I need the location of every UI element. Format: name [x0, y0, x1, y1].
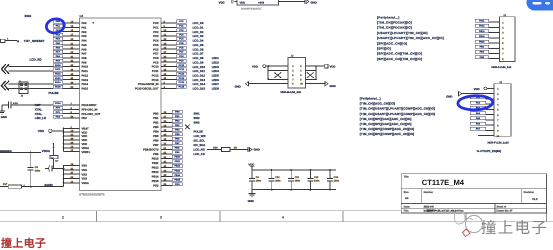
svg-text:PC15-OSC32_OUT: PC15-OSC32_OUT	[135, 88, 159, 91]
svg-text:8: 8	[497, 124, 499, 127]
svg-text:AGND: AGND	[44, 183, 53, 187]
svg-text:3R: 3R	[234, 146, 237, 149]
svg-text:5: 5	[502, 42, 504, 45]
power pin VREF+ wire, pin 12	[64, 149, 91, 154]
wire and net label PA9, pin 42	[53, 59, 87, 64]
svg-text:LCD_D0: LCD_D0	[193, 21, 204, 25]
svg-text:+3V3: +3V3	[258, 2, 265, 5]
svg-text:SW4: SW4	[25, 14, 32, 18]
svg-text:Date:: Date:	[404, 205, 410, 208]
svg-text:100n: 100n	[256, 179, 262, 182]
ground symbol GND below capacitor bank	[248, 190, 256, 203]
svg-text:[TIM_CH][USART][LPUART][COMP][: [TIM_CH][USART][LPUART][COMP][ADC_CH][IO…	[360, 107, 435, 111]
svg-text:[TIM_CH][SPI][COMP][ADC_CH][IO: [TIM_CH][SPI][COMP][ADC_CH][IO]	[360, 127, 414, 131]
svg-text:to CT117E_EX(Bd): to CT117E_EX(Bd)	[477, 149, 501, 153]
resistor R17 AGND line	[0, 183, 64, 189]
svg-text:LCD_D15: LCD_D15	[193, 87, 206, 91]
wire and net label PULSE on pin PB4	[153, 128, 203, 133]
svg-text:VSSA: VSSA	[82, 182, 89, 185]
svg-text:D:\蓝桥杯\PCB\..\CT117_M4.SchDoc: D:\蓝桥杯\PCB\..\CT117_M4.SchDoc	[424, 209, 465, 213]
svg-text:4: 4	[282, 216, 284, 220]
svg-text:VDD: VDD	[82, 135, 88, 138]
wire and net label PA14, pin 49	[53, 81, 89, 86]
svg-text:I2C_SDA: I2C_SDA	[194, 143, 206, 147]
svg-text:PB4: PB4	[153, 131, 159, 134]
svg-text:VSS: VSS	[82, 169, 88, 172]
wire and net label PA10, pin 43	[53, 64, 89, 69]
wire module input	[234, 1, 237, 3]
blue share button top right corner	[527, 0, 553, 11]
svg-text:PC8: PC8	[179, 55, 184, 58]
svg-text:VREF+: VREF+	[82, 151, 91, 154]
svg-text:[USART][LPUART][TIM_CH][ADC_CH: [USART][LPUART][TIM_CH][ADC_CH][IO]	[377, 36, 444, 40]
svg-text:PB0: PB0	[153, 112, 159, 115]
svg-text:[TIM_CH][ADC_CH][IO]: [TIM_CH][ADC_CH][IO]	[360, 102, 395, 106]
svg-text:6: 6	[502, 47, 504, 50]
svg-text:PA10: PA10	[82, 66, 89, 69]
svg-text:GND: GND	[311, 1, 317, 5]
wire and net label PA3, pin 17	[53, 33, 87, 38]
svg-text:PC2: PC2	[153, 31, 159, 34]
wire and net label PA6 to J3 pin 8	[470, 122, 499, 127]
svg-text:PC6: PC6	[153, 48, 159, 51]
svg-text:PB15: PB15	[175, 178, 181, 181]
capacitor C14 6.3n on reset line	[2, 102, 53, 109]
svg-text:SW3: SW3	[194, 121, 201, 125]
wire and net label LCD_D4 on pin PC4, pin 24	[153, 37, 204, 42]
svg-text:PC2: PC2	[179, 29, 184, 32]
svg-text:100n: 100n	[35, 170, 41, 173]
svg-text:SW1: SW1	[194, 112, 201, 116]
wire and net label PB15 to J1 pin 5	[475, 40, 504, 45]
svg-text:PA4: PA4	[82, 40, 88, 43]
IC U4 microcontroller STM32G431RBT6 block	[80, 18, 162, 191]
wire and net label LCD_D12 on pin PC12, pin 39	[152, 72, 220, 77]
power pin VDD wire, pin 19	[64, 130, 88, 135]
svg-text:PA3: PA3	[82, 35, 88, 38]
svg-text:PB3: PB3	[480, 46, 485, 49]
port TGT_NRESET	[17, 38, 45, 43]
svg-text:LCD_D14: LCD_D14	[193, 82, 206, 86]
capacitor C11 100n	[288, 169, 301, 190]
wire and net label PB10 on pin PB10	[152, 155, 183, 160]
capacitor C15 on VREF	[45, 166, 64, 172]
svg-text:PA0: PA0	[82, 22, 88, 25]
svg-text:PD2: PD2	[82, 117, 88, 120]
svg-text:PB5: PB5	[153, 135, 159, 138]
wire and net label PB15 on pin PB15	[152, 178, 183, 183]
svg-text:STM32G431RBT6: STM32G431RBT6	[79, 193, 105, 197]
svg-text:6: 6	[497, 114, 499, 117]
svg-text:[SPI][IO]: [SPI][IO]	[377, 47, 391, 51]
svg-text:SW2: SW2	[194, 116, 201, 120]
svg-text:PC7: PC7	[179, 51, 184, 54]
svg-text:7: 7	[502, 53, 504, 56]
svg-text:GND: GND	[330, 84, 336, 88]
svg-text:2: 2	[300, 65, 302, 68]
svg-text:VDD: VDD	[474, 87, 480, 91]
svg-text:C12: C12	[314, 176, 319, 179]
svg-text:8: 8	[502, 58, 504, 61]
wire and net label PA6, pin 22	[53, 46, 87, 51]
svg-text:PB10: PB10	[175, 156, 181, 159]
svg-text:MOS4N7S-K6AELT: MOS4N7S-K6AELT	[241, 7, 262, 10]
wire and net label PB14 to J1 pin 4	[475, 35, 504, 40]
svg-text:2: 2	[497, 93, 499, 96]
wire and net label PA12, pin 45	[53, 72, 89, 77]
svg-text:PA14: PA14	[55, 81, 61, 84]
svg-text:7: 7	[292, 78, 294, 81]
svg-text:LCD_D8: LCD_D8	[193, 56, 204, 60]
svg-text:1: 1	[497, 88, 499, 91]
testpoint TP1 TGT_NRESET	[1, 37, 18, 42]
wire and net label PA11 to J1 pin 1	[475, 19, 504, 24]
wire and net label PA7 to J3 pin 9	[470, 127, 499, 132]
capacitor C12 100n	[307, 169, 320, 190]
wire and net label LCD_D15 on pin PC15-OSC32_OUT, pin 4	[135, 85, 219, 90]
svg-text:VDD: VDD	[252, 64, 258, 68]
ferrite bead L2 VDDA filter	[50, 143, 59, 168]
annotation blue ellipse around PA1 net label	[45, 17, 65, 34]
svg-text:VDD: VDD	[82, 143, 88, 146]
svg-text:PB9: PB9	[153, 153, 159, 156]
wire and net label LCD_RS on pin PB8-BOOT0	[143, 146, 205, 151]
svg-text:PA15: PA15	[82, 88, 89, 91]
svg-text:LCD_D1: LCD_D1	[193, 26, 204, 30]
svg-text:LCD_CS: LCD_CS	[194, 152, 205, 156]
power pin VDDA wire, pin 13	[64, 145, 90, 150]
svg-text:PD2: PD2	[153, 185, 159, 188]
svg-text:PF1-OSC_OUT: PF1-OSC_OUT	[82, 113, 101, 116]
svg-text:PB11: PB11	[175, 160, 181, 163]
svg-text:PC4: PC4	[179, 38, 184, 41]
svg-text:LED7: LED7	[212, 82, 220, 86]
wire and net label I2C_SCL on pin PB6	[153, 137, 205, 142]
power pin VDD wire, pin 32	[64, 134, 88, 139]
wire and net label LCD_D13 on pin PC13, pin 40	[152, 77, 220, 82]
svg-text:PA9: PA9	[82, 61, 88, 64]
svg-text:PC10: PC10	[152, 66, 159, 69]
svg-text:LCD_D11: LCD_D11	[193, 69, 206, 73]
svg-text:3: 3	[292, 70, 294, 73]
svg-text:PC0: PC0	[153, 22, 159, 25]
ground port GND at LCD_RS	[248, 147, 260, 152]
wire and net label PB4 to J1 pin 7	[475, 50, 504, 55]
svg-text:PA6: PA6	[82, 48, 88, 51]
capacitor C13 100n	[327, 169, 340, 190]
svg-text:PB2: PB2	[153, 121, 159, 124]
svg-text:VBAT: VBAT	[82, 127, 89, 130]
svg-text:PB12: PB12	[175, 165, 181, 168]
svg-text:PA13: PA13	[55, 77, 61, 80]
wire and net label LCD_D0 on pin PC0, pin 8	[153, 20, 204, 25]
no-connect cross on pin PB3	[185, 125, 190, 130]
connector J1 header 1x8	[500, 14, 516, 61]
svg-text:PG10: PG10	[55, 102, 61, 105]
node peripheral function legend upper	[377, 15, 444, 61]
wire and net label PB13 to J1 pin 3	[475, 30, 504, 35]
svg-text:PC9: PC9	[153, 61, 159, 64]
svg-text:LCD_D3: LCD_D3	[193, 34, 204, 38]
port VDD at module input	[219, 0, 235, 4]
svg-text:5: 5	[497, 109, 499, 112]
capacitor C8 100n	[28, 153, 41, 187]
svg-text:PB13: PB13	[152, 171, 159, 174]
svg-text:PULSE: PULSE	[194, 130, 203, 134]
svg-text:PC11: PC11	[179, 68, 185, 71]
wire and net label PA2 to J3 pin 4	[470, 101, 499, 106]
wire and net label LCD_WR on pin PB5	[153, 133, 205, 138]
wire and net label PB11 on pin PB11	[152, 160, 182, 165]
svg-text:撞上电子: 撞上电子	[1, 237, 46, 250]
svg-text:LED2: LED2	[212, 60, 220, 64]
ground port GND at J3 pin2	[446, 92, 499, 99]
resistor R16 on LCD_RS line	[207, 146, 237, 151]
wire and net label LED_LE to pin PD2	[35, 115, 87, 120]
svg-text:1: 1	[292, 65, 294, 68]
svg-text:[USART][LPUART][TIM_CH][IO]: [USART][LPUART][TIM_CH][IO]	[377, 31, 428, 35]
power port VDD left of J2	[252, 64, 266, 68]
svg-text:LCD_D5: LCD_D5	[193, 43, 204, 47]
svg-text:VDD: VDD	[38, 129, 44, 133]
power port VDD right of J2	[325, 64, 336, 68]
wire and net label PA0, pin 14	[53, 20, 87, 25]
svg-text:TGT_NRESET: TGT_NRESET	[24, 39, 45, 43]
svg-text:PB15: PB15	[152, 180, 159, 183]
wire and net label PB13 on pin PB13	[152, 169, 183, 174]
wire and net label LCD_D5 on pin PC5, pin 25	[153, 42, 204, 47]
svg-text:GND: GND	[235, 84, 241, 88]
svg-text:HDR-M-2.54_2x5: HDR-M-2.54_2x5	[281, 91, 302, 94]
svg-text:VDD: VDD	[240, 2, 246, 5]
wire PA10 long to port	[9, 66, 53, 68]
svg-text:VDD: VDD	[219, 0, 225, 4]
svg-text:PB7: PB7	[153, 144, 159, 147]
wire to J3 pin 10	[478, 135, 500, 138]
svg-text:[Peripheral...]: [Peripheral...]	[360, 97, 381, 101]
ground pin VSS wire, pin 47	[64, 172, 88, 177]
wire and net label PB3 to J1 pin 6	[475, 45, 504, 50]
svg-text:2: 2	[62, 216, 64, 220]
svg-text:PB14: PB14	[175, 174, 181, 177]
ground pin VSS wire, pin 18	[64, 163, 88, 168]
no-connect cross J2 pin6	[307, 72, 314, 78]
svg-text:J17: J17	[55, 160, 59, 163]
wire and net label LCD_D6 on pin PC6, pin 26	[153, 46, 204, 51]
wire from R16 to GND port	[230, 149, 248, 151]
watermark logo outline bottom right	[455, 211, 483, 236]
port chevron lower for pulse wires	[1, 81, 9, 91]
svg-text:J5: J5	[21, 95, 24, 98]
svg-text:PULSE: PULSE	[49, 91, 59, 95]
svg-text:VDDA: VDDA	[42, 149, 51, 153]
svg-text:PA5: PA5	[82, 44, 88, 47]
svg-text:A4: A4	[405, 197, 409, 200]
sheet frame bottom border	[0, 174, 553, 222]
svg-text:PA4: PA4	[56, 38, 61, 41]
wire VDD vertical bus	[63, 128, 65, 152]
svg-text:LED_LE: LED_LE	[35, 116, 46, 120]
wire and net label PA5, pin 21	[53, 42, 87, 47]
svg-text:«: «	[17, 38, 20, 43]
wire and net label SW2 on pin PB1	[153, 115, 200, 120]
svg-text:PC8: PC8	[153, 57, 159, 60]
svg-text:XTAL: XTAL	[35, 112, 43, 116]
svg-text:1: 1	[502, 21, 504, 24]
wire and net label SW1 on pin PB0	[153, 110, 200, 115]
svg-text:File:: File:	[404, 210, 409, 213]
svg-text:PA14: PA14	[82, 83, 89, 86]
svg-text:PF0-OSC_IN: PF0-OSC_IN	[82, 109, 98, 112]
wire and net label LCD_D7 on pin PC7, pin 27	[153, 50, 204, 55]
svg-text:PC11: PC11	[152, 70, 159, 73]
wire VSS vertical bus to AGND	[63, 165, 65, 187]
svg-text:10: 10	[300, 83, 303, 86]
ground pin VSS wire, pin 31	[64, 167, 88, 172]
wire and net label PA1, pin 15	[53, 24, 87, 29]
wire left bus J2	[267, 66, 288, 80]
svg-text:LCD_D6: LCD_D6	[193, 47, 204, 51]
svg-text:VDD: VDD	[82, 139, 88, 142]
svg-text:LED1: LED1	[212, 56, 220, 60]
wire and net label PA3 to J3 pin 5	[470, 106, 499, 111]
svg-text:GND: GND	[446, 95, 452, 99]
svg-text:V1.0: V1.0	[532, 198, 538, 201]
svg-text:LCD_WR: LCD_WR	[194, 134, 206, 138]
power pin VBAT wire, pin 1	[64, 126, 89, 131]
wire and net label LCD_CS on pin PB9	[153, 151, 205, 156]
svg-text:PA7: PA7	[56, 51, 61, 54]
wire PA14 long to port	[9, 83, 53, 85]
wire and net label LCD_D11 on pin PC11, pin 38	[152, 68, 219, 73]
svg-text:LCD_RS: LCD_RS	[194, 148, 205, 152]
svg-text:100n: 100n	[275, 179, 281, 182]
svg-text:GND: GND	[1, 116, 7, 119]
svg-text:PA12: PA12	[55, 73, 61, 76]
wire and net label RST to pin PG10-NRST	[35, 102, 97, 107]
svg-text:R17: R17	[3, 183, 8, 186]
svg-text:撞上电子: 撞上电子	[481, 219, 548, 237]
svg-text:Revision: Revision	[524, 191, 535, 194]
svg-text:PC3: PC3	[153, 35, 159, 38]
svg-text:[TIM_CH][FDCAN][IO]: [TIM_CH][FDCAN][IO]	[377, 21, 412, 25]
svg-text:PB10: PB10	[152, 158, 159, 161]
wire and net label PA4, pin 20	[53, 37, 87, 42]
wire and net label I2C_SDA on pin PB7	[153, 142, 205, 147]
ground port GND top	[305, 0, 317, 5]
svg-text:PA13: PA13	[82, 79, 89, 82]
svg-text:PC3: PC3	[179, 33, 184, 36]
wire and net label PA13, pin 46	[53, 77, 89, 82]
svg-text:PA11: PA11	[479, 19, 485, 22]
svg-text:GND: GND	[248, 199, 254, 203]
wire and net label XTAL to pin PF0-OSC_IN	[35, 106, 98, 111]
svg-text:PB4: PB4	[480, 51, 485, 54]
svg-text:9: 9	[497, 130, 499, 133]
power symbol VDD above capacitor bank	[248, 162, 254, 170]
power symbol VDD left	[38, 129, 64, 133]
wire VDD to J2 pin1	[266, 65, 288, 67]
svg-text:PB15: PB15	[479, 40, 485, 43]
svg-text:C13: C13	[334, 176, 339, 179]
svg-text:[TIM_CH][USART][LPUART][COMP][: [TIM_CH][USART][LPUART][COMP][ADC_CH][IO…	[360, 112, 435, 116]
svg-text:PC7: PC7	[153, 53, 159, 56]
svg-text:PF0: PF0	[56, 107, 61, 110]
svg-text:Sheet of: Sheet of	[496, 205, 506, 208]
svg-text:PA12: PA12	[82, 74, 89, 77]
power pin VDD wire, pin 48	[64, 138, 88, 143]
title block	[401, 174, 546, 213]
svg-text:PG10-NRST: PG10-NRST	[82, 104, 97, 107]
ground port GND left of J2	[235, 82, 288, 89]
svg-text:[Peripheral...]: [Peripheral...]	[377, 15, 399, 19]
wire and net label LCD_D10 on pin PC10, pin 37	[152, 64, 220, 69]
PA0 wake-up marker dot	[93, 22, 95, 24]
svg-text:I2C_SCL: I2C_SCL	[194, 139, 206, 143]
svg-text:CT117E_M4: CT117E_M4	[422, 178, 465, 187]
svg-text:100n: 100n	[334, 179, 340, 182]
svg-text:PC4: PC4	[153, 40, 159, 43]
svg-text:PC5: PC5	[153, 44, 159, 47]
svg-text:[TIM_CH][FDCAN][IO]: [TIM_CH][FDCAN][IO]	[377, 26, 412, 30]
port chevron for LCD data wires upper	[1, 64, 9, 74]
svg-text:PC15: PC15	[179, 86, 185, 89]
svg-text:PA7: PA7	[82, 53, 88, 56]
svg-text:PC12: PC12	[152, 74, 159, 77]
svg-text:HDR-F-2.54_1x8: HDR-F-2.54_1x8	[492, 66, 512, 69]
svg-text:PC13: PC13	[179, 77, 185, 80]
svg-text:3: 3	[160, 216, 162, 220]
wire capacitor bank top rail	[252, 169, 336, 171]
svg-text:VDD: VDD	[82, 131, 88, 134]
svg-text:2021-4-8: 2021-4-8	[424, 205, 435, 208]
svg-text:PA11: PA11	[82, 70, 89, 73]
svg-text:VDDA: VDDA	[82, 147, 90, 150]
svg-text:PA10: PA10	[55, 64, 61, 67]
svg-text:HDR-F-2.54_1x10: HDR-F-2.54_1x10	[488, 142, 510, 145]
svg-text:VSS: VSS	[82, 165, 88, 168]
svg-text:PC12: PC12	[179, 73, 185, 76]
svg-text:[TIM_CH][SPI][COMP][ADC_CH][IO: [TIM_CH][SPI][COMP][ADC_CH][IO]	[360, 132, 414, 136]
svg-text:C9: C9	[256, 176, 260, 179]
capacitor C9 100n	[249, 170, 262, 190]
svg-text:C11: C11	[295, 176, 300, 179]
svg-text:4: 4	[300, 70, 302, 73]
svg-text:PB13: PB13	[479, 30, 485, 33]
svg-text:100n: 100n	[295, 179, 301, 182]
wire and net label PA8, pin 41	[53, 55, 87, 60]
svg-text:5: 5	[292, 74, 294, 77]
svg-text:VSS: VSS	[82, 173, 88, 176]
svg-text:PB12: PB12	[152, 167, 159, 170]
svg-text:PB14: PB14	[152, 176, 159, 179]
wire and net label LCD_D8 on pin PC8, pin 33	[153, 55, 219, 60]
svg-text:PA5: PA5	[476, 117, 481, 120]
svg-text:PB6: PB6	[153, 140, 159, 143]
wire and net label PB12 on pin PB12	[152, 164, 183, 169]
ground pin VSSA wire, pin 12	[64, 180, 89, 185]
svg-text:[TIM_CH][SPI][DAC][ADC_CH][IO]: [TIM_CH][SPI][DAC][ADC_CH][IO]	[360, 122, 412, 126]
ground symbol GND below C14	[0, 105, 7, 119]
svg-text:PA5: PA5	[56, 42, 61, 45]
svg-text:PA8: PA8	[82, 57, 88, 60]
wire and net label PA15, pin 50	[53, 85, 89, 90]
wire and net label LCD_D14 on pin PC14-OSC32_IN, pin 3	[138, 81, 219, 86]
wire and net label PA11, pin 44	[53, 68, 88, 73]
wire and net label PA2, pin 16	[53, 29, 87, 34]
svg-text:[SPI][ADC_CH][TIM_CH][IO]: [SPI][ADC_CH][TIM_CH][IO]	[377, 52, 422, 56]
wire and net label SW3 on pin PB2	[153, 119, 200, 124]
